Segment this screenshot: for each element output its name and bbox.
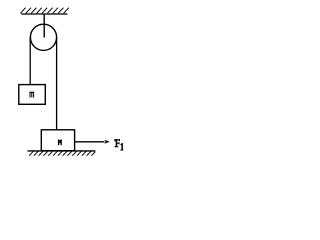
rope from ceiling to pulley axle	[43, 14, 45, 38]
force arrow F1 head	[104, 140, 110, 144]
label F1	[114, 139, 123, 150]
ceiling hatching	[20, 8, 68, 14]
right rope to mass M	[56, 37, 58, 130]
mass m box	[19, 85, 46, 105]
label M	[58, 139, 62, 145]
mass M box	[41, 130, 74, 151]
pulley	[30, 24, 56, 50]
ground line	[28, 150, 96, 152]
ground hatching	[29, 151, 95, 156]
label m	[30, 92, 35, 98]
left rope to mass m	[29, 37, 31, 84]
force arrow F1 shaft	[75, 141, 105, 143]
ceiling line	[21, 13, 67, 15]
